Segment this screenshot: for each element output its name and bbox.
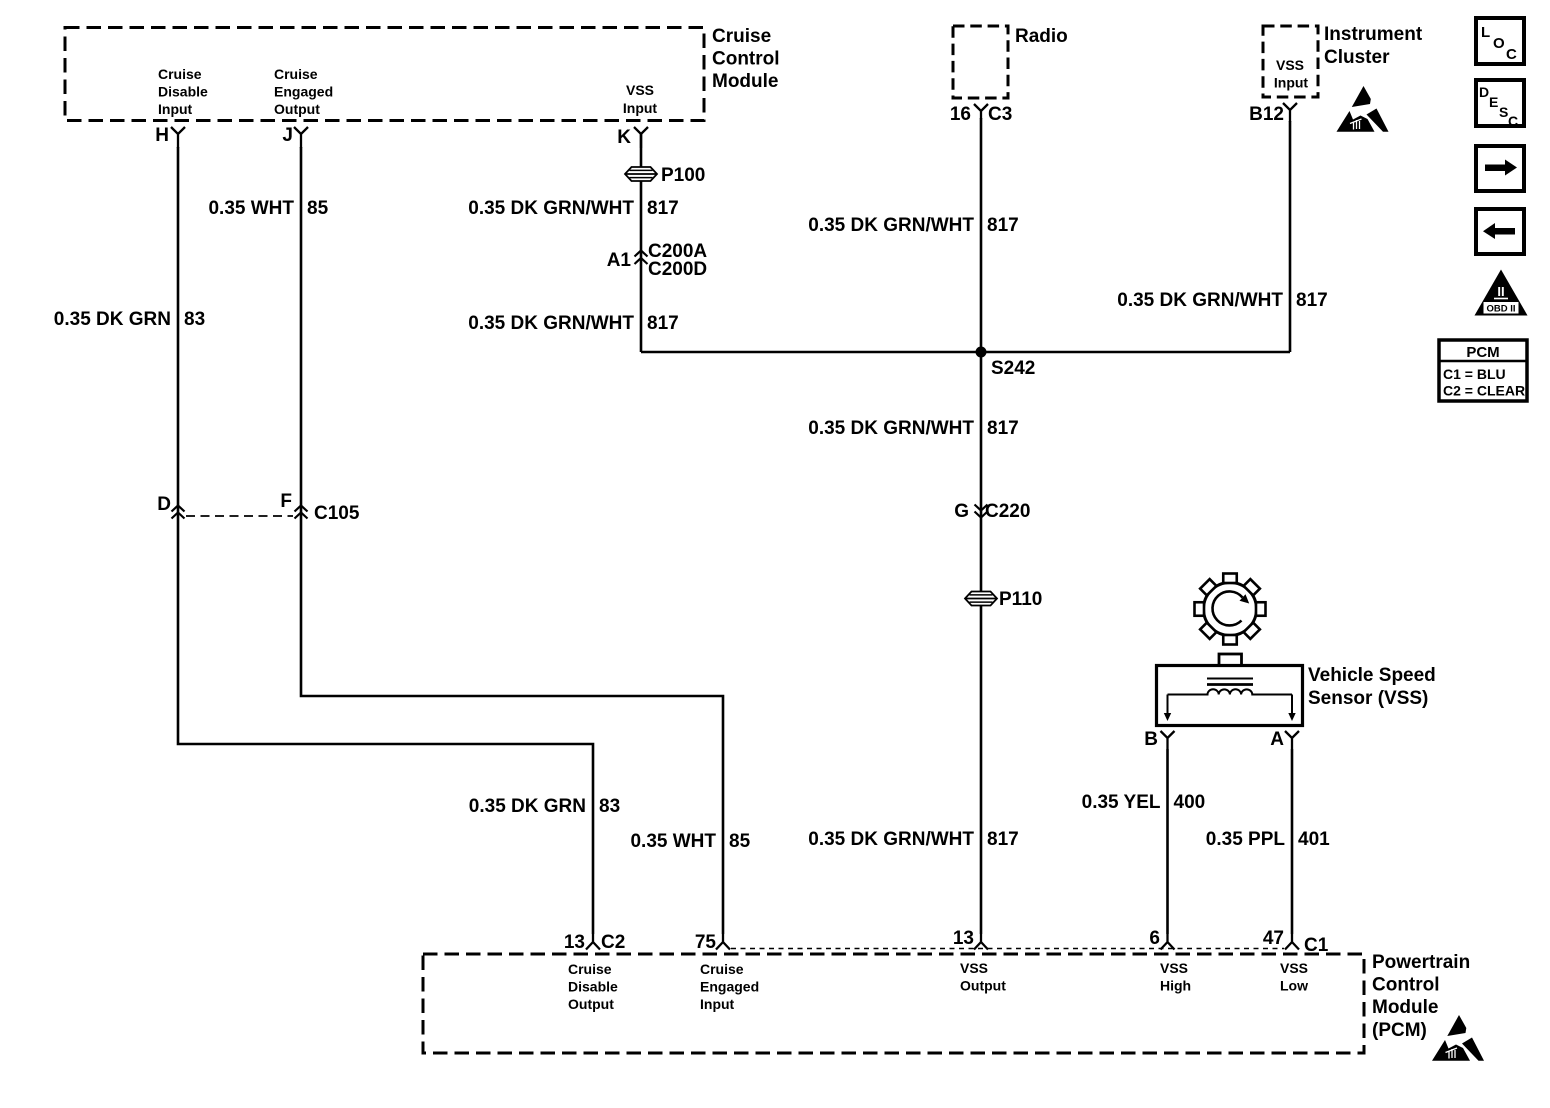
value label 0.35 DK GRN/WHT 817 (radio): [808, 215, 1018, 236]
label Cruise Disable Output (pin 13 C2 function): [568, 961, 618, 1012]
wire 817 DK GRN/WHT: pin K down through P100 and C200 to bus: [640, 134, 643, 352]
svg-text:0.35 WHT: 0.35 WHT: [630, 831, 716, 852]
svg-text:Engaged: Engaged: [274, 84, 333, 100]
svg-text:817: 817: [647, 313, 679, 334]
label Powertrain Control Module (PCM) title: [1372, 952, 1470, 1041]
svg-text:Control: Control: [1372, 975, 1440, 996]
value label 0.35 WHT 85 (lower): [630, 831, 750, 852]
svg-text:VSS: VSS: [626, 82, 654, 98]
svg-text:C: C: [1506, 46, 1517, 63]
svg-text:C200D: C200D: [648, 259, 707, 280]
svg-text:L: L: [1481, 24, 1490, 41]
svg-text:Powertrain: Powertrain: [1372, 952, 1470, 973]
svg-text:Engaged: Engaged: [700, 979, 759, 995]
svg-text:83: 83: [184, 309, 205, 330]
label Cruise Control Module title: [712, 26, 780, 92]
icon LOC box: [1476, 18, 1524, 64]
svg-text:(PCM): (PCM): [1372, 1020, 1427, 1041]
svg-text:817: 817: [987, 215, 1019, 236]
pin J: [282, 125, 308, 148]
svg-text:75: 75: [695, 932, 717, 953]
svg-text:Sensor (VSS): Sensor (VSS): [1308, 688, 1428, 709]
svg-text:85: 85: [307, 198, 329, 219]
value label 0.35 YEL 400: [1082, 792, 1206, 813]
svg-text:G: G: [954, 501, 969, 522]
svg-text:C220: C220: [985, 501, 1030, 522]
svg-text:VSS: VSS: [1160, 960, 1188, 976]
label Radio title: [1015, 26, 1068, 47]
vehicle speed sensor VSS body: [1157, 654, 1303, 726]
value label 0.35 DK GRN 83 (pin H): [54, 309, 205, 330]
svg-text:D: D: [1479, 84, 1489, 100]
pin 13 connector C2 (PCM): [564, 932, 625, 953]
svg-text:C: C: [1508, 113, 1518, 129]
value label 0.35 DK GRN/WHT 817 (below S242): [808, 418, 1018, 439]
svg-text:0.35 DK GRN/WHT: 0.35 DK GRN/WHT: [1117, 290, 1283, 311]
svg-text:O: O: [1493, 35, 1505, 52]
svg-text:Input: Input: [700, 996, 735, 1012]
svg-text:F: F: [280, 491, 292, 512]
connector C105 pins D and F with dashed link: [157, 491, 360, 524]
grommet P100: [625, 165, 705, 186]
svg-text:J: J: [282, 125, 293, 146]
svg-text:47: 47: [1263, 928, 1284, 949]
svg-text:Module: Module: [1372, 997, 1439, 1018]
module Radio box: [953, 26, 1008, 98]
svg-text:Input: Input: [158, 101, 193, 117]
svg-text:817: 817: [987, 418, 1019, 439]
svg-text:Low: Low: [1280, 978, 1308, 994]
svg-text:Output: Output: [568, 996, 614, 1012]
svg-text:P110: P110: [999, 589, 1042, 610]
svg-text:83: 83: [599, 796, 620, 817]
icon forward arrow box: [1476, 146, 1524, 191]
wire 817 DK GRN/WHT: radio pin 16 down through S242, C220, P110 to PCM pin 13: [980, 118, 983, 934]
svg-text:Module: Module: [712, 71, 779, 92]
wire 83 DK GRN: pin H to C105-D to PCM pin 13 C2: [178, 147, 593, 934]
svg-text:Input: Input: [1274, 75, 1309, 91]
splice S242 junction dot: [976, 347, 987, 358]
svg-text:401: 401: [1298, 829, 1330, 850]
svg-text:13: 13: [564, 932, 585, 953]
value label 0.35 DK GRN 83 (lower): [469, 796, 620, 817]
svg-text:S242: S242: [991, 358, 1035, 379]
gear rotation arrow: [1213, 591, 1250, 625]
label VSS High (pin 6 function): [1160, 960, 1191, 994]
wire 817 DK GRN/WHT: instrument cluster pin B12 branch: [1289, 121, 1292, 352]
connector C200A/C200D pin A1: [607, 241, 708, 280]
pin H: [155, 125, 185, 148]
pin 6 (PCM): [1149, 928, 1174, 950]
svg-text:E: E: [1489, 94, 1498, 110]
svg-text:C2 = CLEAR: C2 = CLEAR: [1443, 383, 1525, 399]
svg-text:400: 400: [1174, 792, 1206, 813]
label Vehicle Speed Sensor (VSS): [1308, 665, 1436, 709]
value label 0.35 DK GRN/WHT 817 (to PCM): [808, 829, 1018, 850]
pin B12 (instrument cluster): [1249, 103, 1297, 125]
svg-text:P100: P100: [661, 165, 705, 186]
vehicle speed sensor reluctor gear: [1195, 574, 1266, 645]
svg-text:VSS: VSS: [1276, 57, 1304, 73]
svg-text:0.35 YEL: 0.35 YEL: [1082, 792, 1161, 813]
label S242: [991, 358, 1035, 379]
wire 401 PPL: VSS pin A to PCM pin 47 C1: [1291, 749, 1294, 934]
module Instrument Cluster box: [1263, 26, 1318, 97]
svg-text:0.35 DK GRN/WHT: 0.35 DK GRN/WHT: [468, 198, 634, 219]
svg-text:Disable: Disable: [568, 979, 618, 995]
svg-text:Cruise: Cruise: [712, 26, 771, 47]
svg-text:0.35 DK GRN/WHT: 0.35 DK GRN/WHT: [808, 418, 974, 439]
connector C220 pin G: [954, 501, 1030, 522]
svg-text:Input: Input: [623, 100, 658, 116]
module Powertrain Control Module box: [423, 954, 1364, 1053]
value label 0.35 DK GRN/WHT 817 (B12 branch): [1117, 290, 1327, 311]
svg-text:S: S: [1499, 104, 1508, 120]
svg-text:VSS: VSS: [960, 960, 988, 976]
svg-text:High: High: [1160, 978, 1191, 994]
legend PCM connector colors: [1439, 340, 1527, 401]
pcm connector dashed pin line: [731, 948, 1284, 950]
svg-text:0.35 WHT: 0.35 WHT: [208, 198, 294, 219]
icon back arrow box: [1476, 209, 1524, 254]
svg-text:PCM: PCM: [1466, 344, 1499, 361]
svg-text:D: D: [157, 494, 171, 515]
icon OBD II triangle: [1475, 270, 1528, 316]
module Cruise Control Module box: [65, 28, 704, 121]
svg-text:0.35 PPL: 0.35 PPL: [1206, 829, 1286, 850]
svg-text:II: II: [1497, 284, 1504, 299]
icon DESC box: [1476, 80, 1524, 129]
svg-text:H: H: [155, 125, 169, 146]
svg-text:0.35 DK GRN: 0.35 DK GRN: [469, 796, 586, 817]
label Cruise Engaged Output (pin J function): [274, 66, 333, 117]
value label 0.35 PPL 401: [1206, 829, 1330, 850]
pin 13 (PCM VSS output): [953, 928, 988, 950]
pin 47 connector C1 (PCM): [1263, 928, 1329, 956]
svg-text:Control: Control: [712, 49, 780, 70]
svg-text:B12: B12: [1249, 104, 1284, 125]
svg-text:Output: Output: [274, 101, 320, 117]
svg-text:C1 = BLU: C1 = BLU: [1443, 366, 1506, 382]
svg-text:6: 6: [1149, 928, 1160, 949]
label Cruise Engaged Input (pin 75 function): [700, 961, 759, 1012]
wire 817 DK GRN/WHT horizontal bus through splice S242: [641, 351, 1290, 354]
pin K: [617, 127, 648, 148]
svg-text:Radio: Radio: [1015, 26, 1068, 47]
svg-text:C1: C1: [1304, 935, 1329, 956]
svg-text:Cruise: Cruise: [158, 66, 202, 82]
svg-text:Cruise: Cruise: [568, 961, 612, 977]
svg-text:A1: A1: [607, 250, 632, 271]
label Cruise Disable Input (pin H function): [158, 66, 208, 117]
label VSS Input (pin K function): [623, 82, 658, 116]
label VSS Low (pin 47 function): [1280, 960, 1308, 994]
value label 0.35 DK GRN/WHT 817 (pin K upper): [468, 198, 678, 219]
svg-text:0.35 DK GRN/WHT: 0.35 DK GRN/WHT: [808, 829, 974, 850]
svg-text:817: 817: [987, 829, 1019, 850]
svg-text:A: A: [1270, 729, 1284, 750]
svg-text:Cruise: Cruise: [700, 961, 744, 977]
pin 75 (PCM): [695, 932, 730, 953]
icon ESD warning (PCM): [1432, 1015, 1484, 1061]
svg-text:0.35 DK GRN: 0.35 DK GRN: [54, 309, 171, 330]
svg-text:817: 817: [647, 198, 679, 219]
svg-text:Disable: Disable: [158, 84, 208, 100]
value label 0.35 WHT 85 (top): [208, 198, 328, 219]
pin B (VSS): [1144, 729, 1174, 750]
svg-text:85: 85: [729, 831, 751, 852]
svg-text:16: 16: [950, 104, 971, 125]
svg-text:C2: C2: [601, 932, 625, 953]
label VSS Input (pin B12 function): [1274, 57, 1309, 91]
svg-text:C105: C105: [314, 503, 360, 524]
pin A (VSS): [1270, 729, 1299, 750]
value label 0.35 DK GRN/WHT 817 (pin K lower): [468, 313, 678, 334]
svg-text:K: K: [617, 127, 631, 148]
svg-text:C3: C3: [988, 104, 1012, 125]
svg-text:Cluster: Cluster: [1324, 47, 1390, 68]
label VSS Output (pin 13 function): [960, 960, 1006, 994]
svg-text:Cruise: Cruise: [274, 66, 318, 82]
svg-text:B: B: [1144, 729, 1158, 750]
icon ESD warning (instrument cluster): [1337, 86, 1389, 132]
wire 85 WHT: pin J to C105-F to PCM pin 75: [301, 147, 723, 934]
label Instrument Cluster title: [1324, 24, 1423, 68]
svg-text:VSS: VSS: [1280, 960, 1308, 976]
grommet P110: [965, 589, 1042, 610]
svg-text:0.35 DK GRN/WHT: 0.35 DK GRN/WHT: [468, 313, 634, 334]
pin 16 connector C3 (radio): [950, 104, 1012, 125]
svg-text:817: 817: [1296, 290, 1328, 311]
svg-text:OBD II: OBD II: [1486, 304, 1515, 315]
svg-text:13: 13: [953, 928, 974, 949]
svg-text:Vehicle Speed: Vehicle Speed: [1308, 665, 1436, 686]
wire 400 YEL: VSS pin B to PCM pin 6: [1166, 749, 1169, 934]
svg-text:0.35 DK GRN/WHT: 0.35 DK GRN/WHT: [808, 215, 974, 236]
svg-text:Output: Output: [960, 978, 1006, 994]
svg-text:Instrument: Instrument: [1324, 24, 1423, 45]
